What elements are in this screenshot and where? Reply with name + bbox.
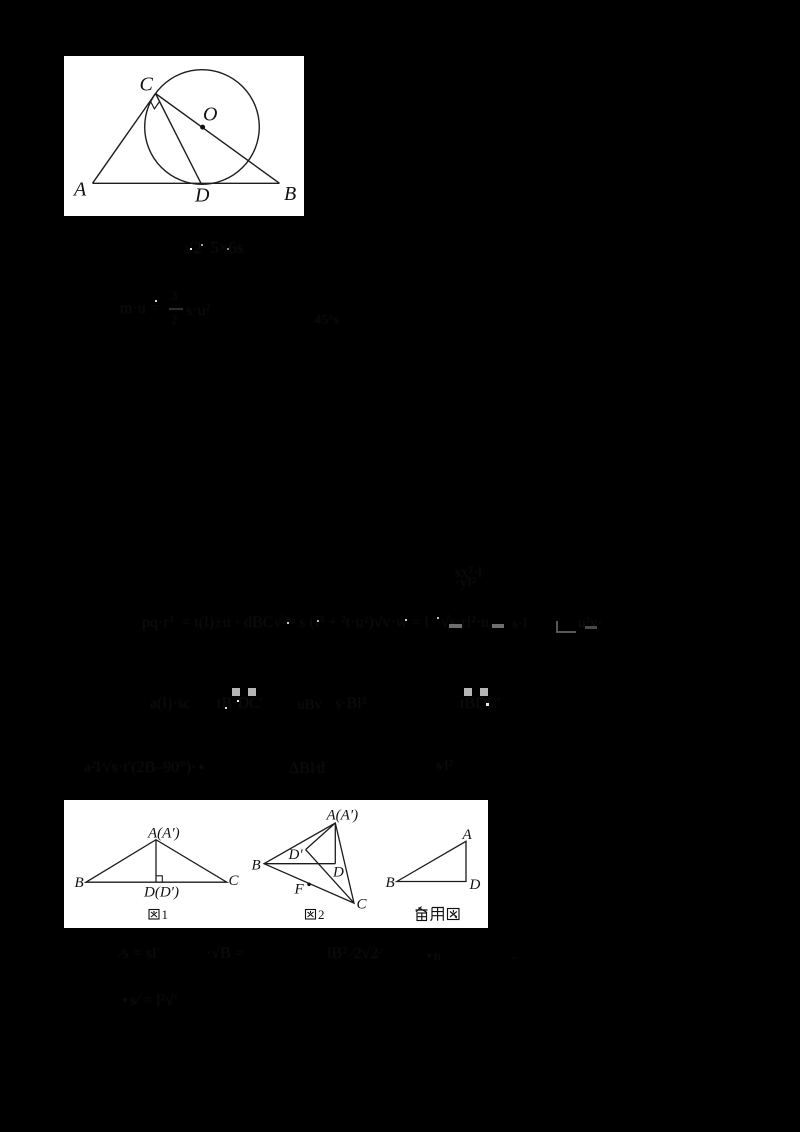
svg-text:A: A xyxy=(72,179,87,201)
center dot O xyxy=(200,125,205,130)
svg-text:D: D xyxy=(194,185,210,207)
faint text row 1: equation with fraction xyxy=(120,300,159,318)
faint text row 7 xyxy=(120,990,177,1010)
fig2 segment D'C xyxy=(306,850,354,904)
speck xyxy=(437,617,439,619)
svg-text:D: D xyxy=(469,877,481,893)
faint text row 5 xyxy=(84,757,206,777)
svg-text:A(A′): A(A′) xyxy=(147,825,180,841)
svg-text:D: D xyxy=(332,865,344,881)
fig1 right angle at D xyxy=(156,876,162,882)
speck xyxy=(405,619,407,621)
svg-text:O: O xyxy=(203,104,217,126)
faint text row 0 xyxy=(184,238,244,258)
svg-text:B: B xyxy=(386,875,395,891)
svg-text:A(A′): A(A′) xyxy=(326,808,359,824)
tofu square xyxy=(232,688,240,696)
fig2 vertical AD xyxy=(334,823,336,864)
speck xyxy=(227,248,229,250)
fig2 triangle xyxy=(264,823,354,903)
speck xyxy=(287,622,289,624)
fig3 caption glyph bei xyxy=(416,907,428,921)
fig3 caption glyph tu xyxy=(448,909,460,920)
speck xyxy=(317,620,319,622)
svg-text:C: C xyxy=(140,74,154,96)
tofu square xyxy=(464,688,472,696)
svg-text:C: C xyxy=(357,897,368,913)
svg-text:B: B xyxy=(284,183,296,205)
fig2 horizontal BD xyxy=(264,863,335,865)
figure box 1: circle inscribed in triangle ABC xyxy=(64,56,304,216)
speck xyxy=(190,248,192,250)
svg-text:D(D′): D(D′) xyxy=(143,885,179,901)
fraction bar xyxy=(169,308,183,310)
faint text row 4 xyxy=(150,695,191,713)
fig1 altitude AD xyxy=(155,840,157,883)
svg-text:C: C xyxy=(229,873,240,889)
wire side AC xyxy=(93,94,156,184)
right angle mark at C xyxy=(150,101,159,109)
gray dash xyxy=(492,624,504,628)
gray dash xyxy=(449,624,462,628)
speck xyxy=(155,300,157,302)
fig2 segment AD' xyxy=(306,823,336,850)
svg-text:2: 2 xyxy=(318,907,325,922)
figure box 2: three triangle figures xyxy=(64,800,488,928)
tofu square xyxy=(480,688,488,696)
fig2 point F dot xyxy=(307,883,311,887)
circle O xyxy=(145,70,260,185)
speck xyxy=(237,700,239,702)
svg-text:B: B xyxy=(75,875,84,891)
wire side CB through O xyxy=(156,94,280,184)
speck xyxy=(486,703,489,706)
faint text row 3: long line xyxy=(142,614,489,632)
svg-text:B: B xyxy=(252,857,261,873)
svg-text:1: 1 xyxy=(162,907,169,922)
tofu square xyxy=(248,688,256,696)
gray dash small xyxy=(585,626,597,629)
speck xyxy=(225,707,227,709)
wire chord CD xyxy=(156,94,202,184)
faint text row 1b xyxy=(314,313,339,329)
fig1 caption glyph tu xyxy=(149,910,159,920)
speck xyxy=(201,244,203,246)
gray angle mark xyxy=(556,621,576,633)
svg-text:D′: D′ xyxy=(288,847,304,863)
wire side AB xyxy=(93,182,280,184)
fig1 triangle ABC xyxy=(86,840,227,883)
svg-text:F: F xyxy=(294,882,305,898)
fig3 caption glyph yong xyxy=(430,908,443,921)
fig2 caption glyph tu xyxy=(306,910,316,920)
faint mark row 2 xyxy=(455,568,482,588)
svg-text:A: A xyxy=(462,827,473,843)
fig3 right triangle xyxy=(397,841,466,881)
faint text row 6 xyxy=(120,945,160,963)
